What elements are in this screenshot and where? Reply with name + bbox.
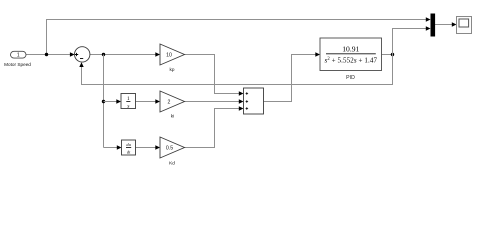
arrowhead into adder input 2: [239, 99, 244, 103]
gain kp value 10: [160, 44, 185, 72]
sum block: [75, 47, 90, 62]
wire branch to integrator: [104, 101, 118, 103]
svg-text:s2 + 5.552s + 1.47: s2 + 5.552s + 1.47: [325, 56, 378, 64]
wire derivative to kd gain: [136, 147, 157, 149]
derivative block du/dt: [122, 140, 136, 155]
wire error distribution vertical: [103, 55, 105, 148]
arrowhead into integrator: [116, 99, 121, 103]
arrowhead into sum bottom: [79, 62, 83, 67]
wire transfer function output: [382, 54, 393, 56]
wire feedback path: [82, 55, 393, 85]
svg-text:Motor Speed: Motor Speed: [4, 62, 31, 67]
wire integrator to ki gain: [136, 101, 157, 103]
svg-text:10: 10: [166, 53, 172, 59]
wire adder output to transfer function: [264, 55, 317, 102]
svg-text:s: s: [127, 104, 129, 110]
wire plant output up to mux: [393, 29, 427, 55]
svg-text:kp: kp: [170, 67, 175, 72]
node junction plant output: [391, 53, 394, 56]
wire kp output to adder input 1: [185, 55, 240, 94]
node junction input: [45, 53, 48, 56]
svg-text:ki: ki: [171, 113, 174, 118]
integrator block 1/s: [121, 94, 136, 110]
node junction integrator branch: [102, 100, 105, 103]
arrowhead into mux input 1: [426, 17, 431, 21]
wire kd output to adder input 3: [185, 109, 240, 148]
svg-text:0.5: 0.5: [166, 146, 173, 152]
wire sum output to kp gain: [90, 54, 156, 56]
gain Kd value 0.5: [160, 137, 185, 166]
node junction error signal: [102, 53, 105, 56]
scope block: [457, 17, 472, 34]
arrowhead into ki: [155, 99, 160, 103]
arrowhead into scope: [452, 22, 457, 26]
arrowhead into derivative: [117, 145, 122, 149]
input port 1 Motor Speed: [4, 51, 31, 67]
svg-text:2: 2: [168, 100, 171, 106]
wire input port to sum: [26, 54, 71, 56]
arrowhead into kd: [155, 145, 160, 149]
wire top feedthrough from input junction to mux: [47, 20, 427, 55]
arrowhead into kp: [155, 52, 160, 56]
transfer function block PID: [320, 38, 382, 81]
arrowhead into sum: [70, 52, 75, 56]
wire ki output to adder input 2: [185, 101, 240, 103]
svg-text:Kd: Kd: [169, 161, 175, 166]
arrowhead into adder input 1: [239, 91, 244, 95]
arrowhead into transfer function: [315, 52, 320, 56]
wire branch to derivative: [104, 147, 118, 149]
gain ki value 2: [160, 91, 185, 118]
svg-text:1: 1: [17, 53, 20, 59]
wire mux to scope: [435, 24, 453, 26]
svg-text:PID: PID: [346, 75, 355, 81]
adder block: [244, 88, 264, 114]
arrowhead into mux input 2: [426, 26, 431, 30]
arrowhead into adder input 3: [239, 106, 244, 110]
mux: [431, 14, 436, 37]
svg-text:10.91: 10.91: [342, 45, 359, 54]
